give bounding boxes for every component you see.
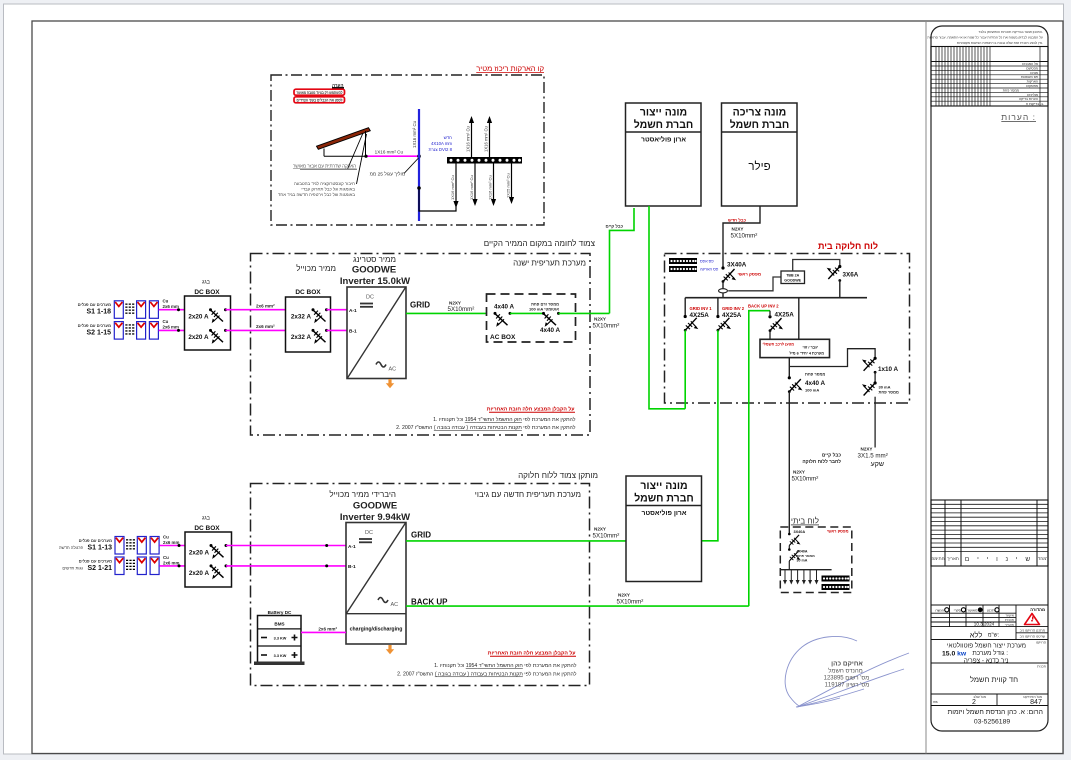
svg-text:1X16 mm² Cu: 1X16 mm² Cu [466,125,471,152]
svg-text:30 mA: 30 mA [797,559,808,563]
dc wire to inverter A-1 [327,309,348,311]
RCD 4x40A [544,314,557,327]
svg-text:DC BOX: DC BOX [194,289,220,296]
svg-text:2x32 A: 2x32 A [291,334,312,341]
svg-text:ש י נ ו י י ם: ש י נ ו י י ם [965,556,1033,563]
svg-text:על המבצע לבדוק בשטח את כל המיד: על המבצע לבדוק בשטח את כל המידות עבור כל… [927,36,1043,40]
junction B-1 [325,564,328,567]
svg-text:מס' רשיון 119187: מס' רשיון 119187 [825,683,870,689]
pillar feeder wire [723,206,760,268]
svg-text:1X16 mm² Cu: 1X16 mm² Cu [484,125,489,152]
svg-text:ארון פוליאסטר: ארון פוליאסטר [642,509,687,517]
svg-text:אין לבצע תכנית זאת שלא נבנות ב: אין לבצע תכנית זאת שלא נבנות בו יחסויות … [957,41,1043,45]
inverter earth arrow [386,379,394,388]
checkbox row [935,608,995,612]
svg-text:N2XY: N2XY [861,447,873,452]
pointer to rod label [404,158,419,174]
svg-text:charging/discharging: charging/discharging [350,627,403,633]
svg-text:תאריך: תאריך [947,556,959,561]
pointer to strap label [348,133,364,169]
svg-text:מונה ייצור: מונה ייצור [640,107,687,119]
svg-text:2x6 mm²: 2x6 mm² [256,304,275,309]
svg-text:פרגולה חדשה: פרגולה חדשה [59,545,84,550]
svg-text:N2XY: N2XY [449,301,461,306]
breaker 3X6A [838,265,841,268]
red note box 1 [294,89,345,95]
title block rounded border [931,26,1048,731]
svg-text:GRID INV 2: GRID INV 2 [722,306,745,311]
svg-text:הגשה: הגשה [935,608,944,612]
ac riser to production meter [610,208,635,313]
string S2 modules [114,322,123,340]
ground riser (blue) [418,109,420,221]
dc wire to inverter B-1 [327,329,348,331]
svg-text:ms: ms [933,700,938,704]
grid inv2 green drop [702,330,718,541]
svg-text:מהנדס חשמל: מהנדס חשמל [828,666,863,674]
svg-text:מפסק ראשי: מפסק ראשי [738,272,762,277]
svg-text:3.3 KW: 3.3 KW [274,654,287,658]
svg-text:לוח ביתי: לוח ביתי [791,517,819,526]
svg-text:Cu: Cu [163,299,169,304]
svg-text:4X25A: 4X25A [722,312,742,319]
svg-text:1X25 mm² Cu: 1X25 mm² Cu [506,173,511,198]
svg-text:כבל חדש: כבל חדש [728,218,747,223]
svg-text:חיבור קונסטרוקציה לגיד בהטבעה: חיבור קונסטרוקציה לגיד בהטבעה [294,181,355,186]
svg-text:ש"מ:: ש"מ: [988,633,1000,639]
svg-text:10.3.2024: 10.3.2024 [974,622,995,627]
svg-text:לחבר ללוח חלוקה: לחבר ללוח חלוקה [802,459,841,465]
svg-text:N2XY: N2XY [594,527,606,532]
svg-text:שקע: שקע [871,461,884,468]
wire to rcd [788,546,790,550]
svg-text:2. להתקין את המערכת לפי תקנות: 2. להתקין את המערכת לפי תקנות הבטיחות בע… [396,424,576,431]
wire to home bus [788,561,790,570]
svg-text:4X40A: 4X40A [797,550,808,554]
svg-text:מהדורה: מהדורה [1030,607,1045,612]
svg-text:מטען לרכב חשמלי: מטען לרכב חשמלי [763,342,795,346]
string S1 modules (hybrid) [115,537,124,555]
roof DC BOX [185,296,231,350]
grid inv1 green drop [684,330,686,409]
feeder drop GRID INV 1 [684,298,686,317]
svg-text:DC: DC [365,530,373,536]
svg-text:על הקבלן המבצע חלה חובת האחריו: על הקבלן המבצע חלה חובת האחריות [487,406,575,413]
svg-text:הרום: א. כהן הנדסת חשמל ויזמ: הרום: א. כהן הנדסת חשמל ויזמות [948,708,1043,716]
pointer to note paragraph [357,134,367,184]
wire breaker to CT [722,282,724,298]
PV ground conductor (magenta) [366,155,420,157]
svg-text:N2XY: N2XY [594,317,606,322]
svg-text:S1 1-18: S1 1-18 [86,309,111,316]
svg-text:מערכים עם פנלים: מערכים עם פנלים [79,559,112,564]
wire to RCD 30mA [874,372,876,383]
svg-text:4x40 A: 4x40 A [494,304,515,311]
svg-text:ממסר פחת: ממסר פחת [797,554,816,558]
title block separator line [925,21,927,754]
svg-text:מפסק ראשי: מפסק ראשי [827,529,849,534]
svg-text:1X16 mm² Cu: 1X16 mm² Cu [412,120,417,148]
svg-text:מפסקים: מפסקים [1026,84,1038,88]
svg-text:2x6 mm: 2x6 mm [163,560,179,565]
battery module 1 [261,637,267,639]
svg-text:GRID: GRID [411,531,431,540]
S1 dc wire [159,309,185,311]
svg-text:סקרי: סקרי [954,608,962,612]
svg-text:מערכת 4 יחיד' 6 מיל: מערכת 4 יחיד' 6 מיל [789,351,824,355]
svg-text:AC BOX: AC BOX [490,334,516,341]
svg-text:היברידי ממיר מכוייל: היברידי ממיר מכוייל [329,490,396,499]
S2 dc wire [159,329,185,331]
svg-text:לסמן את הכבלים בשני הצדדים: לסמן את הכבלים בשני הצדדים [297,98,344,103]
board enclosure [665,254,910,404]
svg-text:5X10mm²: 5X10mm² [792,476,819,483]
svg-text:בגג: בגג [202,280,211,286]
svg-text:4x40 A: 4x40 A [805,380,826,387]
svg-text:גודל מערכת :: גודל מערכת : [972,649,1008,657]
svg-text:S1 1-13: S1 1-13 [87,545,112,552]
svg-text:ממסר פחת: ממסר פחת [1003,88,1020,92]
svg-text:Cu: Cu [163,555,169,560]
EV charger box [760,339,830,357]
svg-text:ב. בדיקות ח.: ב. בדיקות ח. [1026,102,1044,106]
svg-text:הארקות: הארקות [1027,80,1038,84]
AC BOX enclosure [487,294,576,342]
socket breaker 1x10A [862,358,875,371]
svg-text:הערות בדיקה: הערות בדיקה [1019,97,1038,101]
svg-text:פס השוואות: פס השוואות [1021,75,1038,79]
wire riser to earth bar [419,188,456,211]
svg-text:4X25A: 4X25A [775,312,795,319]
svg-text:3X1.5 mm²: 3X1.5 mm² [858,453,888,460]
svg-text:Battery DC: Battery DC [268,610,292,615]
red note box 2 [294,97,345,103]
home earth strip [822,584,850,590]
wire 3X6A to bus [839,280,841,298]
svg-text:מפסקים: מפסקים [1026,66,1038,70]
S1 dc wire (hybrid) [159,545,185,547]
svg-text:מוליכים: מוליכים [1027,93,1038,97]
down arrow 1 [455,164,457,204]
svg-text:15.0 kw: 15.0 kw [942,650,967,657]
charger box outlet wire [788,358,790,378]
inverter AC mark (hybrid) [378,598,388,603]
svg-text:2x20 A: 2x20 A [188,334,209,341]
new conduit label (blue) [429,135,453,152]
CT wire to TBB [728,277,781,291]
backup breaker to charger box [769,331,771,340]
down arrow 4 [511,164,513,200]
backup wire to board [406,605,749,607]
roof-to-wall dc wire 2 [226,329,286,331]
svg-text:אל המבנים: אל המבנים [1022,62,1039,66]
svg-text:מערכת תעריפית ישנה: מערכת תעריפית ישנה [513,259,586,268]
ac wire out of AC box [559,312,610,314]
inverter AC side mark [376,362,386,367]
svg-text:3X40A: 3X40A [794,530,806,534]
home RCD [788,548,791,551]
S2 dc wire (hybrid) [159,565,185,567]
inverter earth arrow (hybrid) [386,645,394,654]
svg-text:5X10mm²: 5X10mm² [617,598,644,605]
svg-text:מערכים עם פנלים: מערכים עם פנלים [78,302,111,307]
svg-text:4X10A mm: 4X10A mm [431,141,452,146]
svg-text:S2 1-15: S2 1-15 [86,330,111,337]
svg-text:פרויקט: פרויקט [1036,641,1046,645]
svg-text:B-1: B-1 [349,329,357,335]
svg-text:יגבר / זווי: יגבר / זווי [803,345,819,349]
svg-text:אישור: אישור [1006,614,1015,618]
svg-text:AC: AC [391,602,399,608]
svg-text:ממיר סטרינג: ממיר סטרינג [353,255,396,264]
battery dc cable [301,631,346,633]
svg-text:N2XY: N2XY [618,593,630,598]
svg-text:על הקבלן המבצע חלה חובת האחריו: על הקבלן המבצע חלה חובת האחריות [488,650,576,657]
backup green riser [749,311,770,606]
svg-text:חתימה: חתימה [931,556,944,561]
svg-text:1. להתקין את המערכת לפי חוק הח: 1. להתקין את המערכת לפי חוק החשמל התשי"ד… [433,416,576,423]
svg-text:להשתמש רק בציוד מטבח מאושר: להשתמש רק בציוד מטבח מאושר [297,90,344,95]
svg-text:N2XY: N2XY [732,227,744,232]
svg-text:באומגות וגל כבל תחרוק עבדי: באומגות וגל כבל תחרוק עבדי [301,187,355,192]
wall DC BOX [286,297,331,352]
RCD 4x40A [788,376,791,379]
svg-text:GRID INV 1: GRID INV 1 [690,306,713,311]
svg-text:2. להתקין את המערכת לפי תקנות: 2. להתקין את המערכת לפי תקנות הבטיחות בע… [397,671,577,678]
production meter (top) [626,103,702,206]
title block top note text [927,30,1043,45]
svg-text:ללא: ללא [970,631,983,640]
dc wire to inverter B-1 (hybrid) [226,565,346,567]
equipotential bus bar [447,157,522,164]
grid ac wire inverter to AC box [406,312,487,314]
svg-text:חברת חשמל: חברת חשמל [634,119,694,131]
svg-text:2x20 A: 2x20 A [189,549,210,556]
inverter U1 body [347,287,406,379]
svg-text:1X16 mm² Cu: 1X16 mm² Cu [469,175,474,200]
svg-text:847: 847 [1030,699,1042,706]
svg-text:תאריך: תאריך [1005,623,1015,627]
battery module 2 [261,654,267,656]
svg-text:3X6A: 3X6A [843,272,859,279]
string S2 modules (hybrid) [115,557,124,575]
svg-text:Inverter 9.94kW: Inverter 9.94kW [340,512,410,523]
solar panel (side view) [317,128,371,150]
svg-text:1X16 mm² Cu: 1X16 mm² Cu [375,150,404,155]
svg-text:DC BOX: DC BOX [295,289,321,296]
svg-text:2x6 mm²: 2x6 mm² [256,324,275,329]
svg-text:פס הארקה: פס הארקה [700,267,719,272]
svg-text:כבל קיים: כבל קיים [822,453,841,459]
svg-text:DC: DC [366,295,374,301]
TBB GOODWE box [781,271,805,284]
svg-text:תכנית: תכנית [1005,618,1014,622]
svg-text:הארקה שדרתית עם אבזר מאושר: הארקה שדרתית עם אבזר מאושר [293,164,356,169]
svg-text:DC BOX: DC BOX [194,525,220,532]
svg-text:5X10mm²: 5X10mm² [593,532,620,539]
svg-text:חדש: חדש [444,135,453,140]
system 2 enclosure [251,484,590,686]
up arrow 2 [489,121,491,157]
feeder drop GRID INV 2 [717,298,719,317]
home neutral strip [822,576,850,582]
svg-text:צמוד לחומה במקום הממיר הקיים: צמוד לחומה במקום הממיר הקיים [484,239,596,248]
panel support frame [324,131,366,156]
svg-text:2x32 A: 2x32 A [291,314,312,321]
svg-text:פילר: פילר [748,160,770,173]
svg-text:תכנית: תכנית [1037,665,1046,669]
checklist table [931,47,1048,107]
svg-text:התכנון אושר בבדיקת תוכניות והת: התכנון אושר בבדיקת תוכניות והתאמתן בלבד. [978,30,1043,34]
svg-text:חד קווית חשמל: חד קווית חשמל [970,675,1018,684]
socket circuit wire [874,397,876,448]
svg-text:3X40A: 3X40A [727,262,747,269]
grounding detail enclosure [271,75,544,225]
socket RCD 30mA [874,381,877,384]
dc wire to inverter A-1 (hybrid) [226,545,346,547]
svg-text:5X10mm²: 5X10mm² [731,233,758,240]
svg-text:חברת חשמל: חברת חשמל [730,119,790,131]
svg-text:Cu: Cu [163,534,169,539]
svg-text:BMS: BMS [274,622,284,627]
lower title block [931,605,1048,706]
svg-text:1. להתקין את המערכת לפי חוק הח: 1. להתקין את המערכת לפי חוק החשמל התשי"ד… [434,662,577,669]
svg-text:100 mA: 100 mA [805,388,819,393]
svg-text:שרטט פרויקט ניב: שרטט פרויקט ניב [1020,635,1046,639]
svg-text:מוליך עגול 25 ממ: מוליך עגול 25 ממ [370,171,405,178]
svg-text:5X10mm²: 5X10mm² [448,306,475,313]
svg-text:2x6 mm: 2x6 mm [163,540,179,545]
svg-text:3.3 KW: 3.3 KW [274,637,287,641]
svg-text:בגג: בגג [202,516,211,522]
svg-text:TBB 2A: TBB 2A [786,274,799,278]
home bus [780,569,831,571]
internal ac wire [510,312,544,314]
svg-text:2x6 mm: 2x6 mm [163,304,179,309]
svg-text:פס אפס: פס אפס [700,259,714,264]
svg-text:2x20 A: 2x20 A [189,570,210,577]
svg-text:מאושר: מאושר [967,608,978,612]
svg-text:1x10 A: 1x10 A [878,366,899,373]
main distribution bus [685,297,867,299]
system 1 enclosure [251,254,591,436]
svg-text:תכנון: תכנון [987,608,995,612]
svg-text:קו הארקות ריכוז מטיר: קו הארקות ריכוז מטיר [476,64,544,73]
svg-text:מונה צריכה: מונה צריכה [733,107,787,119]
svg-text:A-1: A-1 [348,544,356,550]
revisions table [931,500,1048,566]
current transformer [719,289,728,293]
svg-text:N2XY: N2XY [793,470,805,475]
TBB wire to 3X6A [793,260,840,272]
up arrow 1 [471,121,473,157]
battery cabinet [258,616,302,664]
down arrow 3 [493,164,495,202]
svg-text:מס' רשום 123895: מס' רשום 123895 [824,676,870,682]
svg-text:מהד': מהד' [1038,556,1047,561]
svg-text:כבל קיים: כבל קיים [606,224,624,229]
svg-text:ממסר פחת: ממסר פחת [805,372,825,377]
svg-text:1X16 mm² Cu: 1X16 mm² Cu [450,175,455,200]
svg-text:מונים: מונים [1030,71,1038,75]
neutral terminal strip [669,258,697,264]
svg-text:GOODWE: GOODWE [353,501,397,512]
svg-text:4x40 A: 4x40 A [540,327,561,334]
svg-text:2: 2 [972,699,976,706]
svg-text:2x6 mm: 2x6 mm [163,325,179,330]
svg-text:מערכת תעריפית חדשה עם גיבוי: מערכת תעריפית חדשה עם גיבוי [475,490,581,499]
battery pedestal [254,662,305,666]
svg-text:גגות חדשים: גגות חדשים [62,566,83,571]
svg-text:מונה ייצור: מונה ייצור [640,480,687,492]
svg-text:AC: AC [389,367,397,373]
svg-text:S2 1-21: S2 1-21 [87,565,112,572]
svg-text:4X25A: 4X25A [690,312,710,319]
svg-text:חברת חשמל: חברת חשמל [634,493,694,505]
svg-text:03-5256189: 03-5256189 [974,719,1011,726]
svg-text:100 mA אוטומטי: 100 mA אוטומטי [529,306,559,311]
svg-text:2x6 mm²: 2x6 mm² [318,627,337,632]
feed down to home panel [788,392,790,534]
svg-text:מערכת ייצור חשמל פוטוולטאי: מערכת ייצור חשמל פוטוולטאי [947,642,1026,650]
consumption meter / pillar [722,103,798,206]
svg-text:BACK UP: BACK UP [411,598,448,607]
home panel enclosure [780,527,852,593]
svg-text:A-1: A-1 [349,308,357,314]
home feeder arrows [785,570,817,582]
earth terminal strip [669,266,697,272]
svg-text:ממיר מכוייל: ממיר מכוייל [296,264,336,273]
svg-text:הערות :: הערות : [1001,112,1036,122]
svg-text:ממסר פחת: ממסר פחת [879,390,899,395]
svg-text:מותקן צמוד ללוח חלוקה: מותקן צמוד ללוח חלוקה [518,471,598,480]
hybrid inverter U2 body [346,523,406,645]
svg-text:GRID: GRID [410,301,430,310]
svg-text:GOODWE: GOODWE [784,279,801,283]
svg-text:ארון פוליאסטר: ארון פוליאסטר [641,136,686,144]
branch to socket circuit [789,349,875,367]
roof DC BOX (hybrid) [185,532,232,587]
svg-text:Inverter 15.0kW: Inverter 15.0kW [340,276,410,287]
meter output wire to grid breaker [649,206,685,409]
production meter 2 [626,476,702,582]
string S1 modules [114,301,123,319]
svg-text:באומגות של כבל וירטפיה חדשה בג: באומגות של כבל וירטפיה חדשה בגיד אחד [278,192,355,197]
junction A-1 [325,544,328,547]
svg-text:אחיקם כהן: אחיקם כהן [831,661,863,668]
roof-to-wall dc wire 1 [226,309,286,311]
svg-text:B-1: B-1 [348,564,356,570]
svg-text:צנרת DVI2 8: צנרת DVI2 8 [429,147,453,152]
svg-text:ניר כדנא - צפריה: ניר כדנא - צפריה [964,657,1009,664]
svg-text:2x20 A: 2x20 A [188,314,209,321]
bus drop to charger box [798,298,800,340]
down arrow 2 [474,164,476,202]
grounding note paragraph [278,181,355,197]
svg-text:Cu: Cu [163,319,169,324]
svg-text:1X16 mm² Cu: 1X16 mm² Cu [488,175,493,200]
svg-text:לוח חלוקה בית: לוח חלוקה בית [818,241,878,251]
svg-text:מערכים עם פנלים: מערכים עם פנלים [79,538,112,543]
junction on riser [417,186,421,190]
svg-text:מערכים עם פנלים: מערכים עם פנלים [78,323,111,328]
svg-text:5X10mm²: 5X10mm² [593,323,620,330]
svg-text:מתכנן פרויקט ניב: מתכנן פרויקט ניב [1020,629,1046,633]
svg-text:BACK UP INV 2: BACK UP INV 2 [748,303,779,308]
svg-text:GOODWE: GOODWE [352,265,396,276]
grid wire to production meter 2 [406,540,626,542]
